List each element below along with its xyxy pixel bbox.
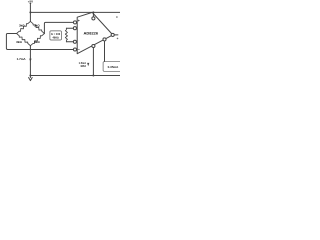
- pin -IN circle: [73, 48, 76, 51]
- wire GND pin to ground rail: [92, 48, 94, 76]
- ground symbol: [29, 76, 33, 81]
- resistor R3 3k ohm (bridge bottom-left arm): [17, 34, 31, 46]
- svg-text:499Ω: 499Ω: [52, 36, 58, 40]
- svg-text:MAX: MAX: [81, 65, 87, 68]
- resistor R2 3k ohm (bridge top-right arm): [30, 21, 44, 33]
- resistor R4 3k ohm (bridge bottom-right arm): [30, 34, 44, 46]
- node ground-rail left junction dot: [29, 75, 31, 77]
- wire bridge bottom to ground rail: [29, 46, 31, 76]
- wire +VS stub: [92, 12, 94, 16]
- svg-text:1.7mA: 1.7mA: [17, 57, 27, 61]
- pin +VS circle: [92, 17, 95, 20]
- current callout box 0.35mA: [103, 62, 122, 72]
- pin REF circle: [103, 38, 106, 41]
- pin GND circle on body: [92, 44, 95, 47]
- node +VS rail junction dot: [92, 11, 94, 13]
- pin RG bottom circle: [73, 40, 76, 43]
- svg-text:0.35mA: 0.35mA: [108, 65, 120, 69]
- wire bridge right node to +IN: [44, 22, 73, 33]
- wire +5V rail: [30, 11, 120, 13]
- svg-text:+: +: [78, 19, 80, 23]
- wire riser to bridge top: [29, 12, 31, 21]
- svg-text:3kΩ: 3kΩ: [34, 40, 40, 44]
- op-amp U1 AD8226 in-amp body: [77, 12, 113, 53]
- ground rail wire: [30, 75, 120, 77]
- svg-text:3kΩ: 3kΩ: [34, 23, 40, 27]
- svg-text:AD8226: AD8226: [83, 30, 98, 35]
- node ground-rail junction dot: [92, 75, 94, 77]
- label VOUT remnant: [117, 38, 119, 40]
- current arrow on GND wire: [87, 63, 89, 66]
- svg-text:3kΩ: 3kΩ: [16, 40, 22, 44]
- svg-text:G = 100: G = 100: [51, 32, 61, 36]
- wire output: [114, 34, 118, 36]
- pin OUT circle: [111, 33, 114, 36]
- resistor RG 499 ohm: [65, 28, 67, 42]
- power +5V supply symbol: [28, 0, 33, 12]
- wire REF to current box: [104, 41, 106, 62]
- current arrow on bridge ground wire: [29, 59, 31, 62]
- wire RG bottom stub: [66, 41, 73, 43]
- node A junction dot (+5V rail left end): [29, 11, 31, 13]
- resistor R1 3k ohm (bridge top-left arm): [17, 21, 31, 33]
- svg-text:3kΩ: 3kΩ: [19, 23, 25, 27]
- label rail remnant: [116, 16, 118, 18]
- gain label box G=100 499 ohm: [50, 31, 62, 40]
- pin +IN circle: [73, 21, 76, 24]
- wire RG top stub: [66, 27, 73, 29]
- pin RG top circle: [73, 27, 76, 30]
- wire bridge left node to -IN: [6, 34, 73, 50]
